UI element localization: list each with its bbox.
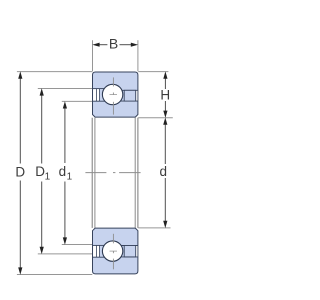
- bore chamfer line right: [134, 118, 136, 228]
- svg-text:1: 1: [67, 172, 73, 183]
- dimension line D: [19, 77, 21, 164]
- extension line D bottom: [17, 274, 92, 276]
- extension line D1 top: [38, 88, 93, 90]
- centerline vertical bottom ball dash 2: [112, 259, 114, 270]
- centerline vertical top ball dash 2: [112, 102, 114, 115]
- arrow H bottom: [163, 111, 167, 118]
- top cage bar line A: [95, 89, 97, 102]
- centerline vertical top ball dash 1: [112, 77, 114, 86]
- svg-text:B: B: [109, 35, 118, 51]
- extension line D top: [17, 71, 92, 73]
- axis centerline horizontal dot: [113, 172, 115, 174]
- centerline vertical bottom ball dash 1: [112, 234, 114, 244]
- bore chamfer line left: [94, 118, 96, 228]
- bottom section rings body: [93, 228, 138, 274]
- extension line d1 bottom: [62, 244, 93, 246]
- svg-text:1: 1: [45, 172, 51, 183]
- bottom cage gap white right: [136, 246, 137, 257]
- arrow B right: [131, 43, 138, 47]
- bottom cage pocket right lines: [121, 246, 138, 257]
- arrow D1 top: [40, 88, 44, 95]
- ball bottom: [102, 241, 122, 261]
- svg-text:D: D: [15, 165, 25, 180]
- extension line d bottom: [138, 227, 170, 229]
- top cage bar line B: [99, 89, 101, 102]
- arrow D1 bottom: [40, 247, 44, 254]
- bottom cage bar line B: [99, 245, 101, 257]
- top raceway line left inner: [93, 100, 105, 102]
- top raceway line left outer: [93, 88, 104, 90]
- bore face line right: [137, 118, 139, 228]
- extension line D1 bottom: [38, 253, 93, 255]
- bottom cage slot white left: [93, 246, 99, 257]
- extension line H bottom / d top: [138, 117, 173, 119]
- svg-text:d: d: [59, 164, 67, 179]
- dimension line B right segment: [120, 44, 134, 46]
- arrow d bottom: [163, 221, 167, 228]
- axis centerline horizontal dash 2: [119, 172, 141, 174]
- top cage pocket right lines: [120, 90, 137, 101]
- dimension line D1: [41, 94, 43, 164]
- dimension line B left segment: [97, 44, 108, 46]
- arrow D bottom: [18, 267, 22, 274]
- dimension line d1: [64, 106, 66, 163]
- ball bottom center dash: [110, 250, 118, 252]
- extension tick B right: [137, 40, 139, 71]
- extension line d1 top: [62, 100, 93, 102]
- top section rings body: [93, 72, 138, 117]
- ball top: [102, 84, 122, 104]
- extension line H top: [138, 71, 168, 73]
- svg-text:d: d: [159, 164, 167, 179]
- arrow D top: [18, 71, 22, 78]
- arrow B left: [92, 43, 99, 47]
- arrow d1 bottom: [63, 237, 67, 244]
- arrow H top: [163, 71, 167, 78]
- bottom cage pocket right box: [124, 246, 136, 257]
- axis centerline horizontal dash 1: [85, 172, 106, 174]
- centerline vertical bottom ball dot: [112, 251, 114, 253]
- centerline vertical top ball dot: [112, 93, 114, 95]
- arrow d top: [163, 118, 167, 125]
- bore face line left: [91, 118, 93, 228]
- top cage gap white right: [136, 91, 137, 101]
- bottom cage bar line A: [95, 245, 97, 257]
- top cage slot white left: [93, 89, 99, 101]
- svg-text:H: H: [160, 88, 170, 103]
- top cage pocket right box: [124, 90, 136, 101]
- dimension line d: [164, 123, 166, 164]
- bottom raceway line left outer: [93, 256, 105, 258]
- extension tick B left: [92, 40, 94, 71]
- bottom raceway line left inner: [93, 244, 104, 246]
- dimension line H: [164, 77, 166, 89]
- ball top center dash: [110, 94, 118, 96]
- arrow d1 top: [63, 101, 67, 108]
